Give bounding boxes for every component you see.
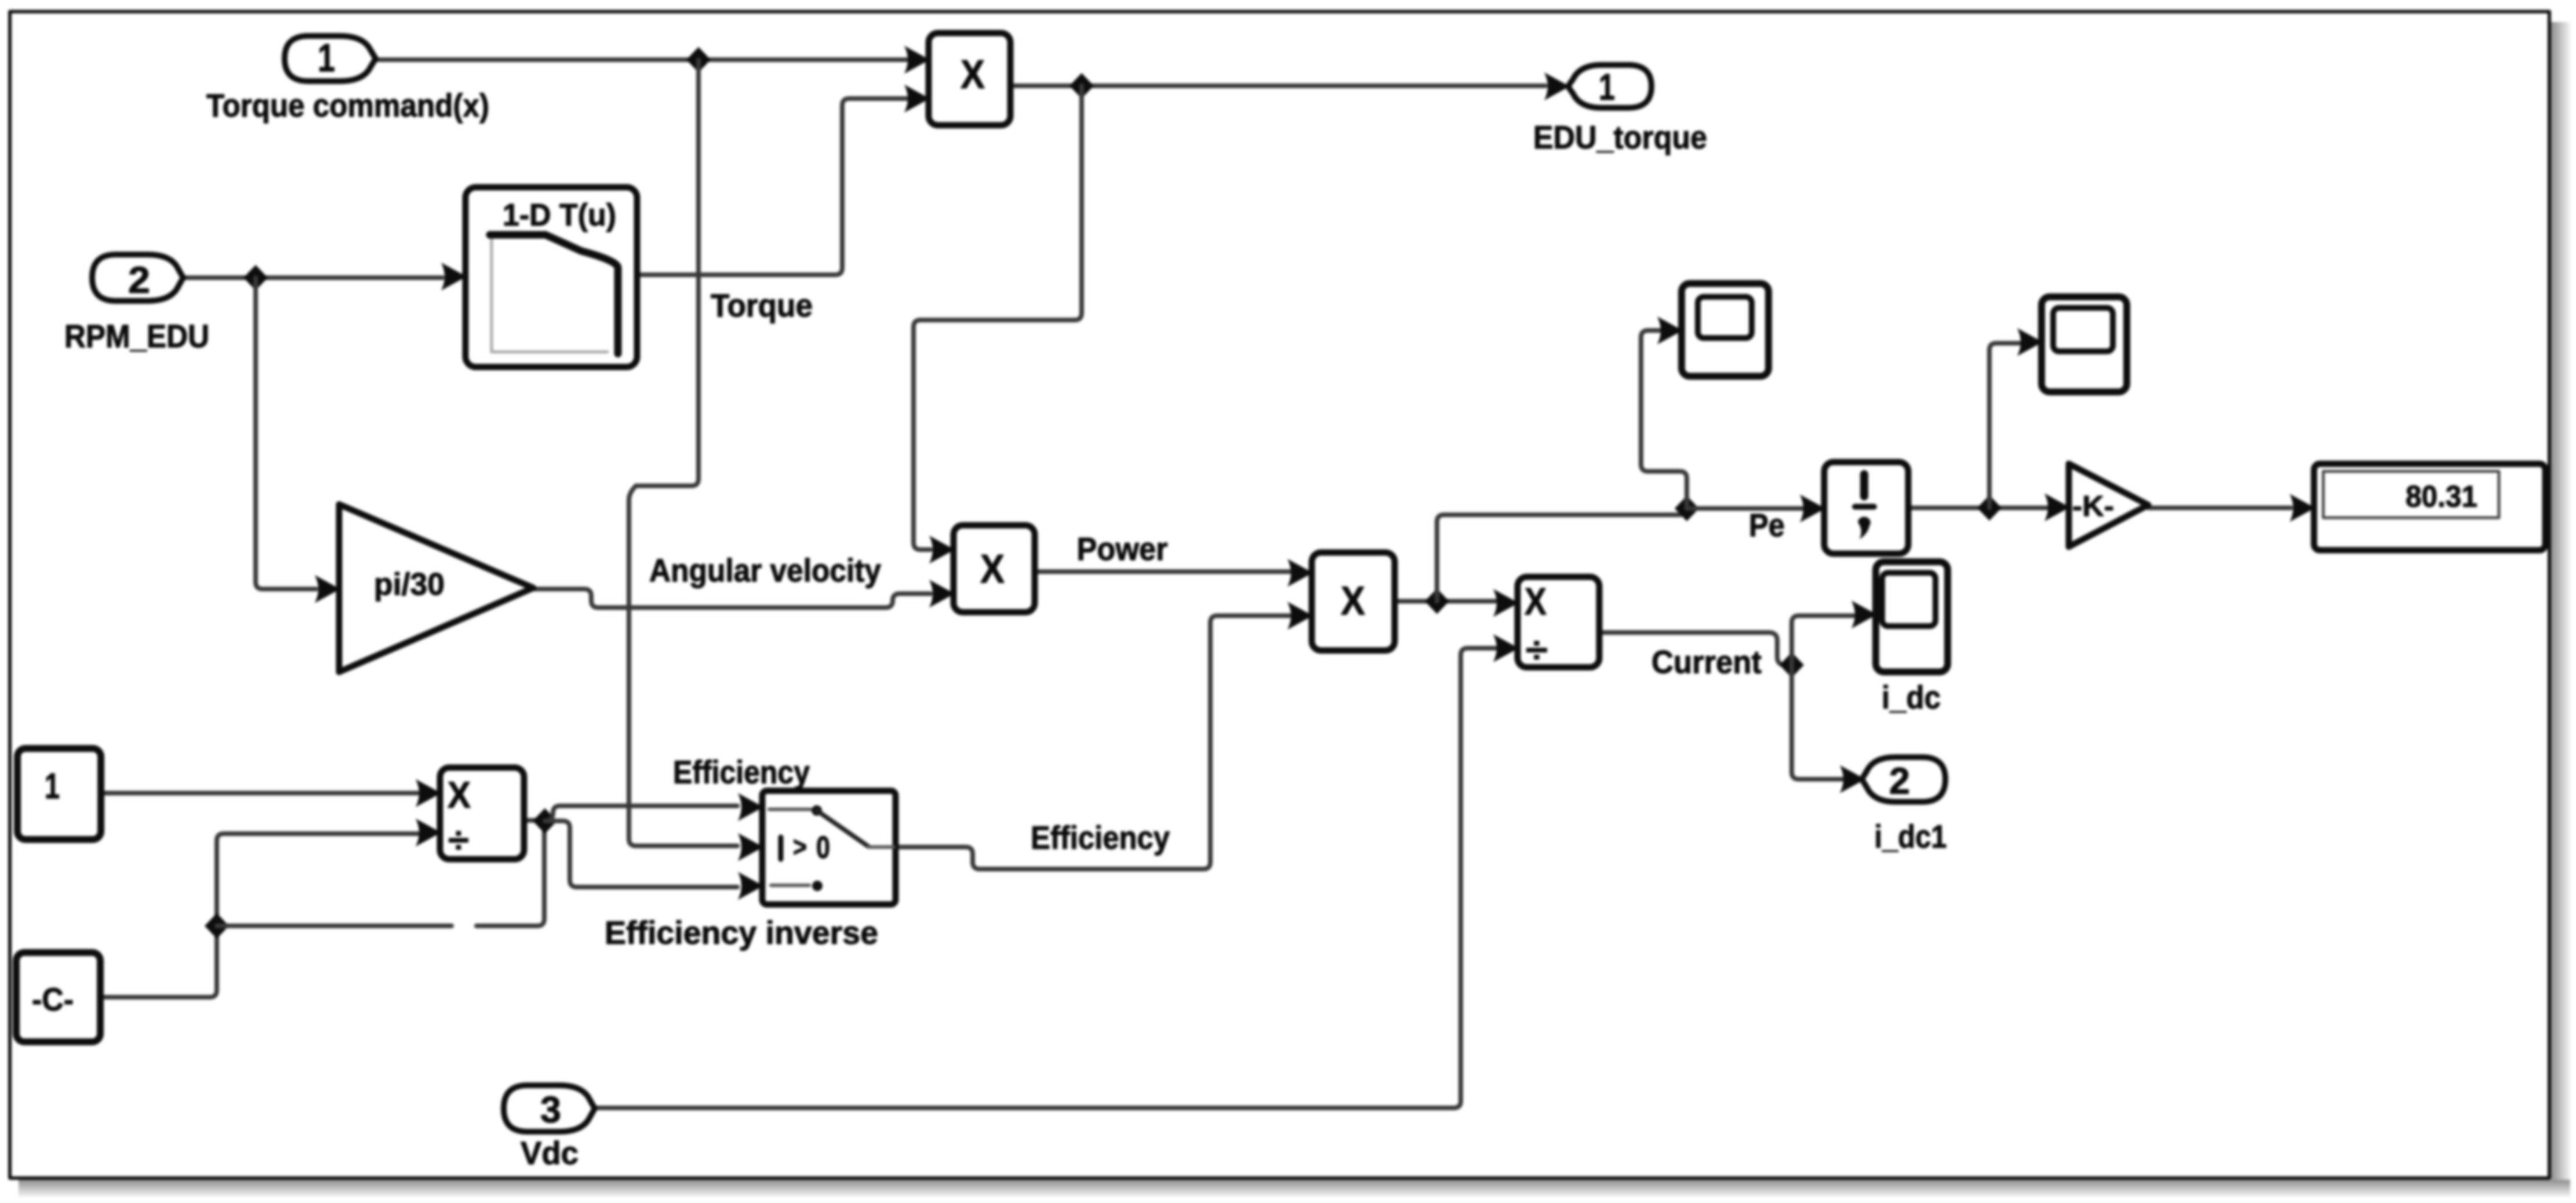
wire current branch down to outport i_dc1 — [1792, 665, 1842, 779]
border shadow right — [2551, 22, 2571, 1180]
wire RPM drop to gain — [256, 278, 316, 589]
inport 2 RPM_EDU — [92, 255, 183, 301]
wire constant -C- to X5 in2 — [100, 834, 418, 997]
wire torque drop to switch control — [629, 60, 737, 846]
svg-text:1: 1 — [318, 36, 335, 80]
scope2 — [2042, 297, 2127, 392]
inport 3 Vdc — [504, 1085, 595, 1132]
wire X1 out to outport EDU_torque — [1010, 83, 1545, 88]
display block 80.31 — [2314, 464, 2545, 550]
lookup curve — [490, 235, 618, 354]
svg-text:RPM_EDU: RPM_EDU — [64, 318, 209, 354]
wire current branch up to scope3 — [1792, 616, 1854, 665]
wire -C- branch right segment b — [476, 826, 544, 926]
svg-text:0: 0 — [816, 830, 830, 865]
svg-text:Torque command(x): Torque command(x) — [206, 87, 489, 123]
wire X5 out — [524, 818, 544, 823]
svg-text:Efficiency inverse: Efficiency inverse — [605, 914, 878, 951]
node junction X1 out — [1069, 73, 1094, 99]
switch in1 stub — [769, 808, 810, 811]
constant 1 — [17, 748, 101, 839]
product X1 — [929, 33, 1010, 125]
wire branch up to Pe divide — [1437, 508, 1687, 601]
outport 1 EDU_torque — [1568, 65, 1651, 108]
outport 2 i_dc1 — [1862, 757, 1945, 802]
constant -C- — [16, 953, 100, 1042]
svg-text:2: 2 — [128, 259, 150, 301]
divide block Pe — [1824, 462, 1908, 554]
wire -C- branch right segment a — [217, 924, 452, 928]
gain -K- — [2069, 464, 2148, 547]
svg-text:-K-: -K- — [2072, 490, 2114, 522]
svg-text:-C-: -C- — [32, 981, 74, 1017]
wire power X2 out to X3 in1 — [1035, 569, 1290, 574]
wire X3 out to X4 in1 — [1395, 599, 1496, 604]
svg-text:Vdc: Vdc — [521, 1135, 578, 1171]
lookup table block 1-D T(u) — [465, 187, 637, 367]
node junction on torque command line — [686, 47, 711, 72]
node junction divide out — [1977, 495, 2002, 521]
svg-text:Torque: Torque — [711, 287, 813, 324]
svg-text:i_dc: i_dc — [1882, 679, 1941, 715]
switch criteria I > 0 — [778, 837, 784, 859]
wire Pe to divide block — [1687, 506, 1803, 511]
switch diagonal — [817, 811, 868, 846]
svg-text:X: X — [980, 546, 1005, 591]
wire Pe branch to scope1 — [1641, 330, 1687, 508]
wire divide out to gain -K- — [1908, 506, 2047, 510]
svg-text:Pe: Pe — [1749, 507, 1785, 543]
svg-text:Angular velocity: Angular velocity — [649, 552, 881, 588]
svg-text:pi/30: pi/30 — [374, 567, 445, 602]
switch block — [762, 791, 896, 904]
svg-text:X: X — [1341, 578, 1365, 623]
wire X5 out up to switch in1 — [545, 806, 737, 821]
svg-text:Efficiency: Efficiency — [673, 754, 810, 790]
node junction -C- — [205, 913, 229, 939]
switch bottom notch — [836, 902, 851, 907]
svg-text:1: 1 — [45, 766, 60, 806]
wire port2 to lookup — [183, 275, 442, 280]
switch in3 stub — [771, 884, 809, 887]
product X2 — [954, 525, 1035, 612]
inport 1 Torque command — [285, 36, 376, 81]
svg-text:X: X — [960, 52, 985, 97]
wire X4 out current — [1599, 633, 1792, 665]
svg-text:>: > — [793, 832, 807, 863]
scope1 — [1682, 284, 1769, 376]
product X3 — [1312, 553, 1395, 650]
svg-text:80.31: 80.31 — [2406, 480, 2477, 514]
svg-text:÷: ÷ — [1526, 630, 1548, 670]
scope3 i_dc — [1876, 562, 1948, 672]
svg-text:Efficiency: Efficiency — [1031, 819, 1170, 856]
wire switch out to X3 in2 (efficiency) — [896, 616, 1290, 869]
lookup axis lines — [492, 239, 607, 352]
svg-text:1: 1 — [1599, 66, 1615, 108]
wire port1 to product X1 in1 — [376, 57, 907, 62]
wire constant 1 to X5 in1 — [101, 791, 418, 795]
wire X1 out branch down to product X2 in1 — [914, 86, 1082, 550]
node junction X5 out — [533, 808, 557, 834]
svg-text:i_dc1: i_dc1 — [1875, 818, 1947, 855]
wire gain -K- out to display — [2148, 506, 2291, 510]
wire gain out to product X2 in2 (angular velocity) — [533, 589, 930, 608]
wire lookup out to product X1 in2 — [637, 99, 907, 275]
svg-text:X: X — [1525, 580, 1547, 623]
node junction Pe — [1675, 496, 1699, 521]
svg-text:EDU_torque: EDU_torque — [1533, 119, 1707, 155]
node junction current — [1780, 652, 1804, 678]
gain pi/30 — [339, 504, 533, 672]
node junction RPM — [243, 265, 268, 290]
switch out stub — [868, 845, 894, 849]
svg-text:1-D T(u): 1-D T(u) — [503, 198, 616, 232]
svg-text:Current: Current — [1651, 644, 1762, 680]
divide X4 — [1518, 577, 1599, 667]
svg-text:÷: ÷ — [448, 820, 469, 860]
svg-text:Power: Power — [1077, 530, 1168, 567]
svg-text:2: 2 — [1889, 760, 1910, 802]
wire X5 out down to switch in3 — [545, 821, 737, 887]
node junction X3 out — [1425, 588, 1449, 614]
wire branch up to scope2 — [1989, 343, 2022, 508]
border shadow bottom — [19, 1180, 2570, 1197]
svg-text:3: 3 — [540, 1089, 561, 1131]
divide X5 efficiency inverse — [440, 768, 524, 859]
svg-text:X: X — [447, 774, 471, 816]
wire Vdc to X4 in2 — [592, 648, 1496, 1108]
